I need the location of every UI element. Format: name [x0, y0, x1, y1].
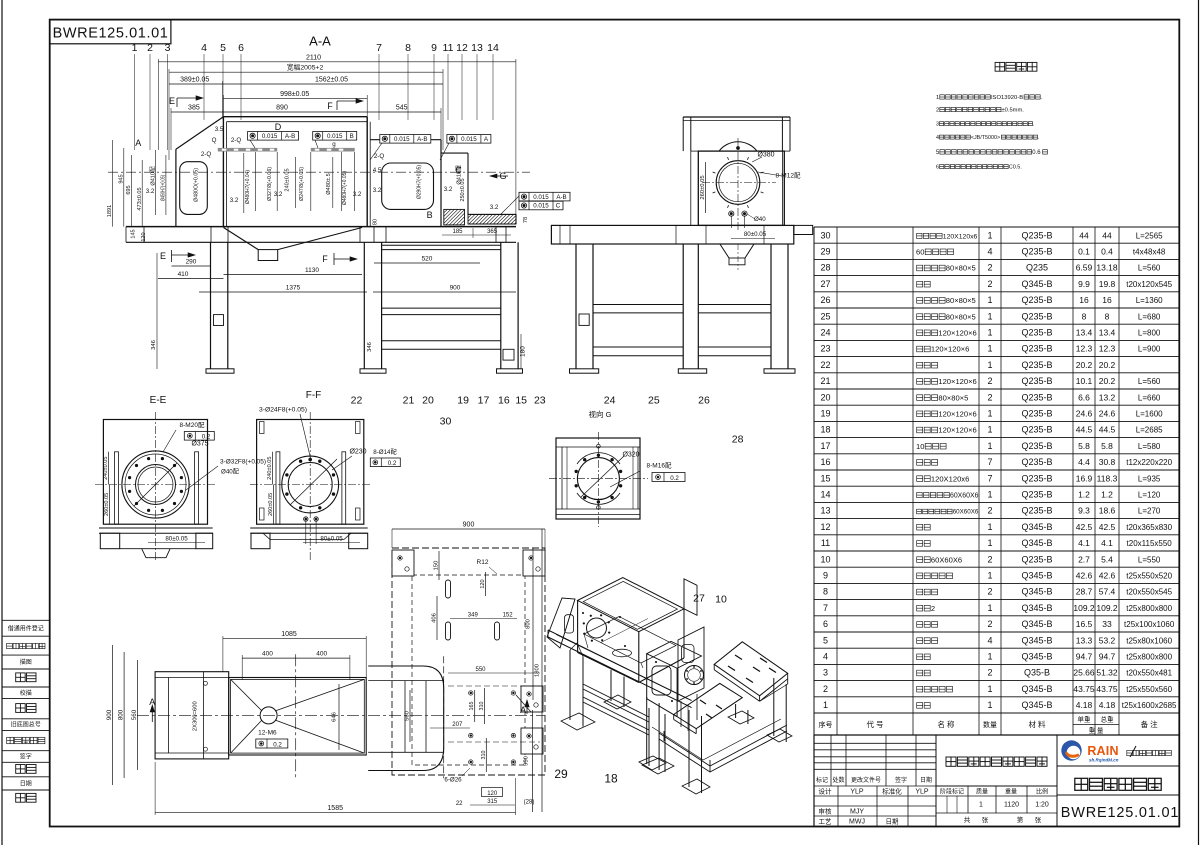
- svg-text:2110: 2110: [306, 54, 321, 61]
- svg-text:2-Q: 2-Q: [201, 151, 212, 158]
- svg-text:250±0.05: 250±0.05: [460, 178, 466, 201]
- svg-text:MJY: MJY: [850, 809, 864, 816]
- svg-text:19.8: 19.8: [1099, 279, 1116, 289]
- svg-text:YLP: YLP: [915, 789, 929, 796]
- svg-text:3-Ø24F8(+0.05): 3-Ø24F8(+0.05): [259, 407, 307, 414]
- svg-text:C: C: [556, 203, 561, 210]
- svg-text:Ø480H7(+0.05): Ø480H7(+0.05): [342, 171, 348, 205]
- svg-text:3-Ø32F8(+0.05): 3-Ø32F8(+0.05): [220, 459, 266, 466]
- svg-text:42.5: 42.5: [1099, 522, 1116, 532]
- svg-text:43.75: 43.75: [1073, 684, 1095, 694]
- svg-text:0.4: 0.4: [1101, 247, 1113, 257]
- svg-text:950: 950: [524, 756, 530, 766]
- svg-text:t25x800x800: t25x800x800: [1126, 604, 1172, 613]
- svg-text:5: 5: [220, 42, 226, 54]
- svg-text:120×120×6: 120×120×6: [938, 329, 976, 338]
- svg-text:51.32: 51.32: [1096, 668, 1118, 678]
- svg-text:20.2: 20.2: [1099, 376, 1116, 386]
- svg-text:ISO13920-B: ISO13920-B: [991, 95, 1023, 101]
- svg-text:1: 1: [936, 95, 939, 101]
- svg-text:视向 G: 视向 G: [589, 409, 612, 419]
- svg-text:t20x115x550: t20x115x550: [1127, 539, 1173, 548]
- svg-text:3: 3: [936, 122, 939, 128]
- svg-text:11: 11: [443, 42, 454, 54]
- svg-text:0.015: 0.015: [533, 194, 549, 201]
- svg-text:L=935: L=935: [1138, 474, 1161, 483]
- svg-text:18.6: 18.6: [1099, 506, 1116, 516]
- svg-text:2: 2: [987, 554, 992, 564]
- svg-text:1: 1: [987, 295, 992, 305]
- svg-text:Ø230: Ø230: [349, 449, 366, 456]
- svg-text:L=900: L=900: [1138, 345, 1161, 354]
- svg-text:3.2: 3.2: [146, 188, 155, 195]
- svg-text:44.5: 44.5: [1076, 425, 1093, 435]
- svg-text:Q345-B: Q345-B: [1021, 635, 1052, 645]
- svg-text:Q235: Q235: [1026, 263, 1048, 273]
- svg-text:Q235-B: Q235-B: [1021, 554, 1052, 564]
- svg-text:Q235-B: Q235-B: [1021, 230, 1052, 240]
- svg-text:t20x365x830: t20x365x830: [1126, 523, 1172, 532]
- svg-text:800: 800: [118, 709, 125, 720]
- svg-text:Q345-B: Q345-B: [1021, 538, 1052, 548]
- svg-text:310: 310: [481, 751, 487, 760]
- svg-text:t20x120x545: t20x120x545: [1126, 280, 1172, 289]
- svg-text:94.7: 94.7: [1076, 652, 1093, 662]
- svg-text:80×80×5: 80×80×5: [946, 264, 976, 273]
- svg-text:24.6: 24.6: [1099, 409, 1116, 419]
- svg-text:25: 25: [820, 311, 830, 321]
- svg-text:240±0.05: 240±0.05: [103, 457, 109, 480]
- svg-text:13.4: 13.4: [1099, 328, 1116, 338]
- svg-text:Q235-B: Q235-B: [1021, 376, 1052, 386]
- svg-text:t12x220x220: t12x220x220: [1126, 458, 1172, 467]
- svg-text:4.5: 4.5: [373, 167, 382, 174]
- svg-text:0.015: 0.015: [327, 133, 343, 140]
- svg-text:550: 550: [475, 667, 486, 673]
- svg-text:2: 2: [987, 376, 992, 386]
- svg-text:185: 185: [452, 229, 463, 235]
- svg-text:389±0.05: 389±0.05: [180, 77, 209, 84]
- svg-text:1: 1: [987, 441, 992, 451]
- svg-text:第: 第: [1017, 815, 1024, 824]
- svg-text:Q235-B: Q235-B: [1021, 506, 1052, 516]
- svg-text:6: 6: [823, 619, 828, 629]
- svg-text:1: 1: [987, 571, 992, 581]
- svg-text:646: 646: [332, 712, 338, 722]
- svg-text:3.2: 3.2: [230, 197, 239, 204]
- svg-text:998±0.05: 998±0.05: [280, 91, 309, 98]
- svg-text:25.66: 25.66: [1073, 668, 1095, 678]
- svg-text:B: B: [350, 133, 354, 140]
- svg-text:单重: 单重: [1078, 715, 1092, 724]
- svg-text:120X120x6: 120X120x6: [931, 474, 969, 483]
- svg-text:A-B: A-B: [556, 194, 566, 201]
- svg-text:890: 890: [276, 104, 288, 111]
- svg-text:2: 2: [987, 587, 992, 597]
- svg-text:43.75: 43.75: [1096, 684, 1118, 694]
- svg-text:g: g: [332, 141, 336, 148]
- svg-text:t25x550x520: t25x550x520: [1126, 572, 1172, 581]
- svg-text:29: 29: [820, 247, 830, 257]
- svg-text:(28): (28): [524, 800, 535, 806]
- svg-text:900: 900: [450, 285, 461, 292]
- svg-text:序号: 序号: [819, 720, 833, 729]
- svg-text:5.4: 5.4: [1101, 554, 1113, 564]
- svg-text:3.5: 3.5: [215, 126, 224, 133]
- svg-text:520: 520: [422, 256, 433, 263]
- svg-text:t25x550x560: t25x550x560: [1126, 685, 1172, 694]
- svg-text:代 号: 代 号: [866, 719, 883, 729]
- svg-text:Q345-B: Q345-B: [1021, 619, 1052, 629]
- svg-text:28: 28: [732, 434, 744, 446]
- svg-text:3: 3: [823, 668, 828, 678]
- svg-text:8: 8: [405, 42, 411, 54]
- svg-text:Ø290H7(+0.05): Ø290H7(+0.05): [417, 165, 423, 199]
- svg-text:9.9: 9.9: [1078, 279, 1090, 289]
- svg-text:28.7: 28.7: [1076, 587, 1093, 597]
- svg-text:15: 15: [515, 395, 527, 407]
- svg-text:900: 900: [463, 522, 475, 529]
- svg-text:设计: 设计: [819, 787, 833, 796]
- svg-text:695: 695: [126, 185, 132, 194]
- svg-text:1: 1: [987, 409, 992, 419]
- svg-text:13: 13: [471, 42, 483, 54]
- svg-text:80±0.05: 80±0.05: [165, 536, 188, 543]
- svg-text:更改文件号: 更改文件号: [851, 776, 881, 784]
- svg-text:30: 30: [440, 416, 452, 428]
- svg-text:工艺: 工艺: [819, 818, 833, 826]
- svg-text:t25x100x1060: t25x100x1060: [1124, 620, 1175, 629]
- svg-text:Q235-B: Q235-B: [1021, 295, 1052, 305]
- svg-text:1: 1: [987, 603, 992, 613]
- svg-text:12-M6: 12-M6: [258, 730, 277, 737]
- svg-text:94.7: 94.7: [1099, 652, 1116, 662]
- svg-text:260±0.05: 260±0.05: [700, 175, 706, 199]
- svg-text:13.3: 13.3: [1076, 635, 1093, 645]
- svg-text:1: 1: [987, 230, 992, 240]
- svg-text:42.6: 42.6: [1076, 571, 1093, 581]
- svg-text:A: A: [135, 138, 141, 148]
- svg-text:E: E: [160, 251, 166, 261]
- svg-text:±0.5mm.: ±0.5mm.: [1002, 108, 1025, 114]
- svg-text:2: 2: [987, 619, 992, 629]
- svg-text:1: 1: [987, 522, 992, 532]
- svg-text:60X60X6: 60X60X6: [950, 493, 979, 500]
- svg-text:Ø380: Ø380: [757, 152, 774, 159]
- svg-text:30: 30: [820, 230, 830, 240]
- svg-text:42.6: 42.6: [1099, 571, 1116, 581]
- svg-text:310: 310: [479, 702, 485, 711]
- svg-text:0.015: 0.015: [461, 136, 477, 143]
- svg-text:Ø410配: Ø410配: [149, 166, 156, 186]
- svg-text:0.2: 0.2: [273, 742, 282, 749]
- svg-text:1: 1: [823, 700, 828, 710]
- svg-text:0.015: 0.015: [533, 203, 549, 210]
- svg-text:t4x48x48: t4x48x48: [1133, 248, 1166, 257]
- svg-text:3: 3: [165, 42, 171, 54]
- svg-text:260±0.05: 260±0.05: [268, 493, 274, 516]
- svg-text:F: F: [327, 101, 333, 111]
- svg-text:4.18: 4.18: [1076, 700, 1093, 710]
- svg-text:张: 张: [1035, 815, 1042, 824]
- svg-text:Q235-B: Q235-B: [1021, 457, 1052, 467]
- svg-text:346: 346: [151, 340, 157, 350]
- svg-text:0.2: 0.2: [388, 460, 397, 467]
- svg-text:545: 545: [396, 104, 408, 111]
- svg-text:L=560: L=560: [1138, 264, 1161, 273]
- svg-text:10: 10: [820, 554, 830, 564]
- svg-text:0.015: 0.015: [394, 136, 410, 143]
- svg-text:29: 29: [554, 767, 568, 781]
- svg-text:4.1: 4.1: [1078, 538, 1090, 548]
- svg-text:60: 60: [916, 248, 924, 257]
- svg-text:A-A: A-A: [309, 34, 331, 49]
- svg-text:349: 349: [468, 613, 479, 619]
- svg-text:23: 23: [534, 395, 546, 407]
- svg-text:Q35-B: Q35-B: [1024, 668, 1050, 678]
- svg-text:12: 12: [820, 522, 830, 532]
- svg-text:Ø480H7(+0.04): Ø480H7(+0.04): [245, 170, 251, 204]
- svg-text:20.2: 20.2: [1076, 360, 1093, 370]
- svg-text:标记: 标记: [816, 776, 828, 784]
- svg-text:日期: 日期: [20, 780, 32, 788]
- svg-text:6: 6: [936, 165, 939, 171]
- svg-text:10: 10: [715, 594, 727, 606]
- svg-text:2: 2: [987, 263, 992, 273]
- svg-text:2: 2: [987, 506, 992, 516]
- svg-text:20: 20: [422, 395, 434, 407]
- svg-text:1: 1: [987, 652, 992, 662]
- svg-text:MWJ: MWJ: [849, 819, 865, 826]
- svg-text:2-Q: 2-Q: [231, 137, 242, 144]
- svg-text:290: 290: [186, 259, 197, 266]
- svg-text:21: 21: [403, 395, 415, 407]
- svg-text:材 料: 材 料: [1028, 719, 1046, 729]
- svg-text:150: 150: [434, 561, 440, 571]
- svg-text:Q345-B: Q345-B: [1021, 652, 1052, 662]
- svg-text:1120: 1120: [1004, 802, 1019, 809]
- svg-text:44.5: 44.5: [1099, 425, 1116, 435]
- svg-text:3.2: 3.2: [274, 191, 283, 198]
- svg-text:22: 22: [456, 801, 463, 807]
- svg-text:4: 4: [987, 247, 992, 257]
- svg-text:24: 24: [820, 328, 830, 338]
- svg-text:120×120×6: 120×120×6: [931, 345, 969, 354]
- svg-text:120: 120: [487, 791, 498, 797]
- svg-text:19: 19: [457, 395, 469, 407]
- svg-text:名 称: 名 称: [937, 719, 955, 729]
- svg-text:400: 400: [316, 651, 327, 658]
- svg-text:张: 张: [982, 815, 989, 824]
- svg-text:L=580: L=580: [1138, 442, 1161, 451]
- svg-text:10: 10: [916, 442, 924, 451]
- svg-text:0.015: 0.015: [262, 133, 278, 140]
- svg-text:33: 33: [1102, 619, 1112, 629]
- svg-text:23: 23: [820, 344, 830, 354]
- svg-text:Q235-B: Q235-B: [1021, 360, 1052, 370]
- svg-text:14: 14: [820, 490, 830, 500]
- svg-text:180: 180: [520, 346, 527, 357]
- svg-text:0.6: 0.6: [1032, 150, 1041, 156]
- svg-text:1: 1: [987, 700, 992, 710]
- svg-text:重量: 重量: [1005, 787, 1017, 795]
- svg-text:385: 385: [188, 104, 200, 111]
- svg-text:315: 315: [487, 799, 498, 805]
- svg-text:比例: 比例: [1036, 787, 1048, 795]
- svg-text:13: 13: [820, 506, 830, 516]
- svg-text:Ø320: Ø320: [622, 452, 639, 459]
- svg-text:28: 28: [820, 263, 830, 273]
- svg-text:Q235-B: Q235-B: [1021, 247, 1052, 257]
- svg-text:2: 2: [987, 668, 992, 678]
- svg-text:处数: 处数: [832, 776, 844, 784]
- svg-text:2X300=600: 2X300=600: [193, 701, 199, 731]
- svg-text:数量: 数量: [983, 720, 997, 729]
- svg-text:2: 2: [936, 108, 939, 114]
- svg-text:1: 1: [987, 425, 992, 435]
- svg-text:57.4: 57.4: [1099, 587, 1116, 597]
- svg-text:L=660: L=660: [1138, 393, 1161, 402]
- svg-text:145: 145: [131, 229, 137, 238]
- svg-text:3.2: 3.2: [444, 186, 453, 193]
- svg-text:Q345-B: Q345-B: [1021, 700, 1052, 710]
- svg-text:Q345-B: Q345-B: [1021, 522, 1052, 532]
- svg-text:Ø40: Ø40: [754, 216, 766, 223]
- svg-text:20: 20: [820, 392, 830, 402]
- svg-text:16: 16: [1079, 295, 1089, 305]
- svg-text:备 注: 备 注: [1141, 719, 1159, 729]
- svg-text:Q235-B: Q235-B: [1021, 441, 1052, 451]
- svg-text:L=1600: L=1600: [1136, 410, 1163, 419]
- svg-text:Q235-B: Q235-B: [1021, 328, 1052, 338]
- svg-text:Q235-B: Q235-B: [1021, 425, 1052, 435]
- svg-text:16: 16: [498, 395, 510, 407]
- svg-text:8-Ø14配: 8-Ø14配: [373, 449, 396, 456]
- svg-text:日期: 日期: [920, 776, 932, 784]
- svg-text:Ø247/8(+0.05): Ø247/8(+0.05): [299, 167, 305, 201]
- svg-text:560: 560: [131, 709, 138, 720]
- svg-text:1: 1: [987, 538, 992, 548]
- svg-text:Q235-B: Q235-B: [1021, 409, 1052, 419]
- svg-text:共: 共: [964, 815, 971, 824]
- svg-text:L=2565: L=2565: [1136, 231, 1163, 240]
- svg-text:1: 1: [987, 344, 992, 354]
- svg-text:118.3: 118.3: [1097, 473, 1118, 483]
- svg-text:Ø480O(+0.05): Ø480O(+0.05): [194, 168, 200, 202]
- svg-text:8: 8: [823, 587, 828, 597]
- svg-text:53.2: 53.2: [1099, 635, 1116, 645]
- svg-text:12.3: 12.3: [1076, 344, 1093, 354]
- svg-text:80×80×5: 80×80×5: [946, 312, 976, 321]
- svg-text:B: B: [427, 210, 433, 220]
- svg-text:10.1: 10.1: [1076, 376, 1093, 386]
- svg-text:0.1: 0.1: [1078, 247, 1090, 257]
- svg-text:Q235-B: Q235-B: [1021, 392, 1052, 402]
- svg-text:t25x1600x2685: t25x1600x2685: [1122, 701, 1177, 710]
- svg-text:A-B: A-B: [285, 133, 295, 140]
- svg-text:1: 1: [979, 802, 983, 809]
- svg-text:120×120×6: 120×120×6: [938, 377, 976, 386]
- svg-text:12: 12: [456, 42, 468, 54]
- svg-text:120: 120: [480, 579, 486, 588]
- svg-text:400: 400: [262, 651, 273, 658]
- svg-text:L=680: L=680: [1138, 312, 1161, 321]
- svg-text:sh.RqindM.cn: sh.RqindM.cn: [1089, 758, 1119, 763]
- svg-text:5.8: 5.8: [1078, 441, 1090, 451]
- svg-text:宽幅2005+2: 宽幅2005+2: [287, 63, 324, 72]
- svg-text:26: 26: [698, 395, 710, 407]
- svg-text:3.2: 3.2: [353, 191, 362, 198]
- svg-text:重 量: 重 量: [1089, 727, 1104, 735]
- svg-text:2: 2: [931, 604, 935, 613]
- svg-text:80±0.05: 80±0.05: [320, 536, 343, 543]
- svg-text:78: 78: [523, 217, 529, 223]
- svg-text:17: 17: [478, 395, 490, 407]
- svg-text:4.4: 4.4: [1078, 457, 1090, 467]
- svg-text:365: 365: [487, 229, 498, 235]
- svg-text:2.7: 2.7: [1078, 554, 1090, 564]
- svg-text:4.1: 4.1: [1101, 538, 1113, 548]
- svg-text:18: 18: [820, 425, 830, 435]
- svg-text:1375: 1375: [286, 285, 301, 292]
- svg-text:3.2: 3.2: [490, 204, 499, 211]
- svg-text:2-Q: 2-Q: [374, 153, 385, 160]
- svg-text:L=270: L=270: [1138, 507, 1161, 516]
- svg-text:Q235-B: Q235-B: [1021, 473, 1052, 483]
- svg-text:2: 2: [823, 684, 828, 694]
- svg-text:80: 80: [373, 219, 379, 225]
- svg-text:2: 2: [987, 392, 992, 402]
- svg-text:1: 1: [987, 360, 992, 370]
- svg-text:BWRE125.01.01: BWRE125.01.01: [53, 26, 169, 42]
- svg-text:240±0.05: 240±0.05: [285, 168, 291, 191]
- svg-text:9.3: 9.3: [1078, 506, 1090, 516]
- svg-text:Ø480±.5: Ø480±.5: [326, 173, 332, 194]
- svg-text:RAIN: RAIN: [1087, 744, 1118, 758]
- svg-text:17: 17: [820, 441, 830, 451]
- svg-text:0.2: 0.2: [202, 433, 211, 440]
- svg-text:5.8: 5.8: [1101, 441, 1113, 451]
- svg-text:Ø375: Ø375: [191, 441, 208, 448]
- svg-text:207: 207: [452, 722, 463, 728]
- svg-text:7: 7: [987, 473, 992, 483]
- svg-text:YLP: YLP: [850, 789, 864, 796]
- svg-text:7: 7: [376, 42, 382, 54]
- svg-text:<JB/T5000>: <JB/T5000>: [971, 135, 1000, 141]
- svg-text:18: 18: [604, 772, 618, 786]
- svg-text:60X60X6: 60X60X6: [953, 509, 979, 516]
- svg-text:473±0.05: 473±0.05: [137, 187, 143, 210]
- svg-text:80×80×5: 80×80×5: [946, 296, 976, 305]
- svg-text:27: 27: [820, 279, 830, 289]
- svg-text:1: 1: [987, 311, 992, 321]
- svg-text:15: 15: [820, 473, 830, 483]
- svg-text:8-M20配: 8-M20配: [180, 421, 205, 429]
- svg-text:总重: 总重: [1101, 715, 1115, 724]
- svg-text:1: 1: [987, 490, 992, 500]
- svg-text:4: 4: [987, 635, 992, 645]
- svg-text:签字: 签字: [895, 776, 907, 784]
- svg-text:旧底图总号: 旧底图总号: [11, 721, 41, 729]
- svg-text:42.5: 42.5: [1076, 522, 1093, 532]
- svg-text:审核: 审核: [819, 807, 833, 816]
- svg-text:4: 4: [201, 42, 207, 54]
- svg-text:16: 16: [1102, 295, 1112, 305]
- svg-text:1891: 1891: [107, 205, 113, 217]
- svg-text:E-E: E-E: [150, 395, 167, 406]
- svg-text:Ø450H7(+0.05): Ø450H7(+0.05): [161, 175, 167, 201]
- svg-text:L=560: L=560: [1138, 377, 1161, 386]
